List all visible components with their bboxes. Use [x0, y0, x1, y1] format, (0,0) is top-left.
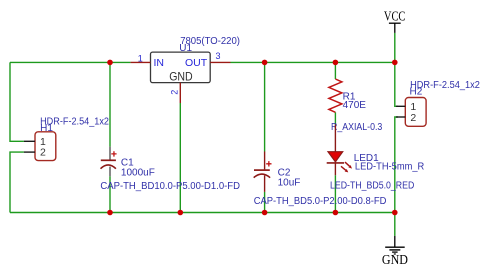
H1 pin 1	[24, 140, 35, 142]
wire: C2 branch lower	[264, 192, 266, 213]
wire: VCC output net horizontal	[231, 61, 395, 63]
svg-text:H2: H2	[410, 87, 423, 98]
resistor R1 zigzag	[329, 79, 342, 112]
LED D1 symbol	[327, 125, 352, 176]
svg-text:LED-TH_BD5.0_RED: LED-TH_BD5.0_RED	[330, 181, 414, 192]
svg-text:GND: GND	[382, 252, 408, 267]
svg-text:LED-TH-5mm_R: LED-TH-5mm_R	[355, 161, 424, 172]
wire: VCC to R1	[334, 62, 336, 79]
power flag VCC	[384, 9, 406, 33]
wire: C1 branch lower	[109, 176, 111, 212]
wire: input net left rail upper	[10, 62, 24, 141]
ground symbol GND	[382, 236, 408, 267]
svg-text:1: 1	[138, 53, 143, 63]
svg-text:GND: GND	[169, 70, 193, 84]
svg-text:10uF: 10uF	[278, 177, 301, 188]
H2 pin 2	[396, 116, 405, 118]
capacitor C1 symbol	[101, 147, 117, 177]
wire: LED1 to ground	[334, 175, 336, 212]
svg-text:R_AXIAL-0.3: R_AXIAL-0.3	[331, 122, 383, 133]
svg-text:2: 2	[410, 112, 416, 124]
wire: right rail lower from H2 pin2	[395, 117, 398, 213]
svg-text:H1: H1	[40, 123, 53, 134]
junction dot ground/U1 pin2	[178, 210, 184, 216]
wire: ground net bottom horizontal	[10, 212, 395, 214]
svg-text:OUT: OUT	[185, 57, 208, 69]
wire: ground stem green	[394, 213, 396, 236]
junction dot VCC/R1	[333, 60, 339, 66]
svg-text:CAP-TH_BD10.0-P5.00-D1.0-FD: CAP-TH_BD10.0-P5.00-D1.0-FD	[100, 181, 240, 192]
wire: ground net left rail lower	[10, 152, 24, 212]
svg-text:3: 3	[216, 51, 221, 61]
svg-text:CAP-TH_BD5.0-P2.00-D0.8-FD: CAP-TH_BD5.0-P2.00-D0.8-FD	[254, 196, 387, 207]
U1 pin 2 stub	[179, 83, 181, 103]
svg-text:2: 2	[40, 147, 46, 159]
capacitor C2 symbol	[254, 152, 272, 192]
header H2 body	[405, 98, 426, 127]
junction dot input/C1	[107, 60, 113, 66]
junction dot ground/right rail	[392, 210, 398, 216]
wire: C1 branch upper	[109, 62, 111, 146]
svg-text:VCC: VCC	[384, 9, 406, 24]
header H1 body	[35, 132, 56, 161]
svg-text:IN: IN	[154, 57, 165, 69]
svg-text:2: 2	[170, 90, 180, 95]
junction dot VCC/right rail	[392, 60, 398, 66]
U1 pin 3 stub	[210, 61, 230, 63]
U1 pin 1 stub	[131, 61, 151, 63]
wire: input net top horizontal	[10, 61, 131, 63]
wire: right rail upper to H2 pin1	[395, 62, 398, 106]
wire: C2 branch upper	[264, 62, 266, 151]
junction dot ground/C1	[107, 210, 113, 216]
wire: VCC stem green	[394, 33, 396, 63]
svg-text:470E: 470E	[343, 100, 367, 111]
junction dot ground/C2	[262, 210, 268, 216]
svg-text:1000uF: 1000uF	[121, 167, 155, 178]
junction dot ground/LED	[333, 210, 339, 216]
wire: R1 to LED1	[334, 112, 336, 124]
H1 pin 2	[24, 151, 35, 153]
regulator U1 7805 body	[151, 52, 211, 84]
wire: U1 pin2 to ground	[179, 103, 181, 213]
svg-text:U1: U1	[179, 43, 192, 54]
junction dot VCC/C2	[262, 60, 268, 66]
H2 pin 1	[396, 105, 405, 107]
